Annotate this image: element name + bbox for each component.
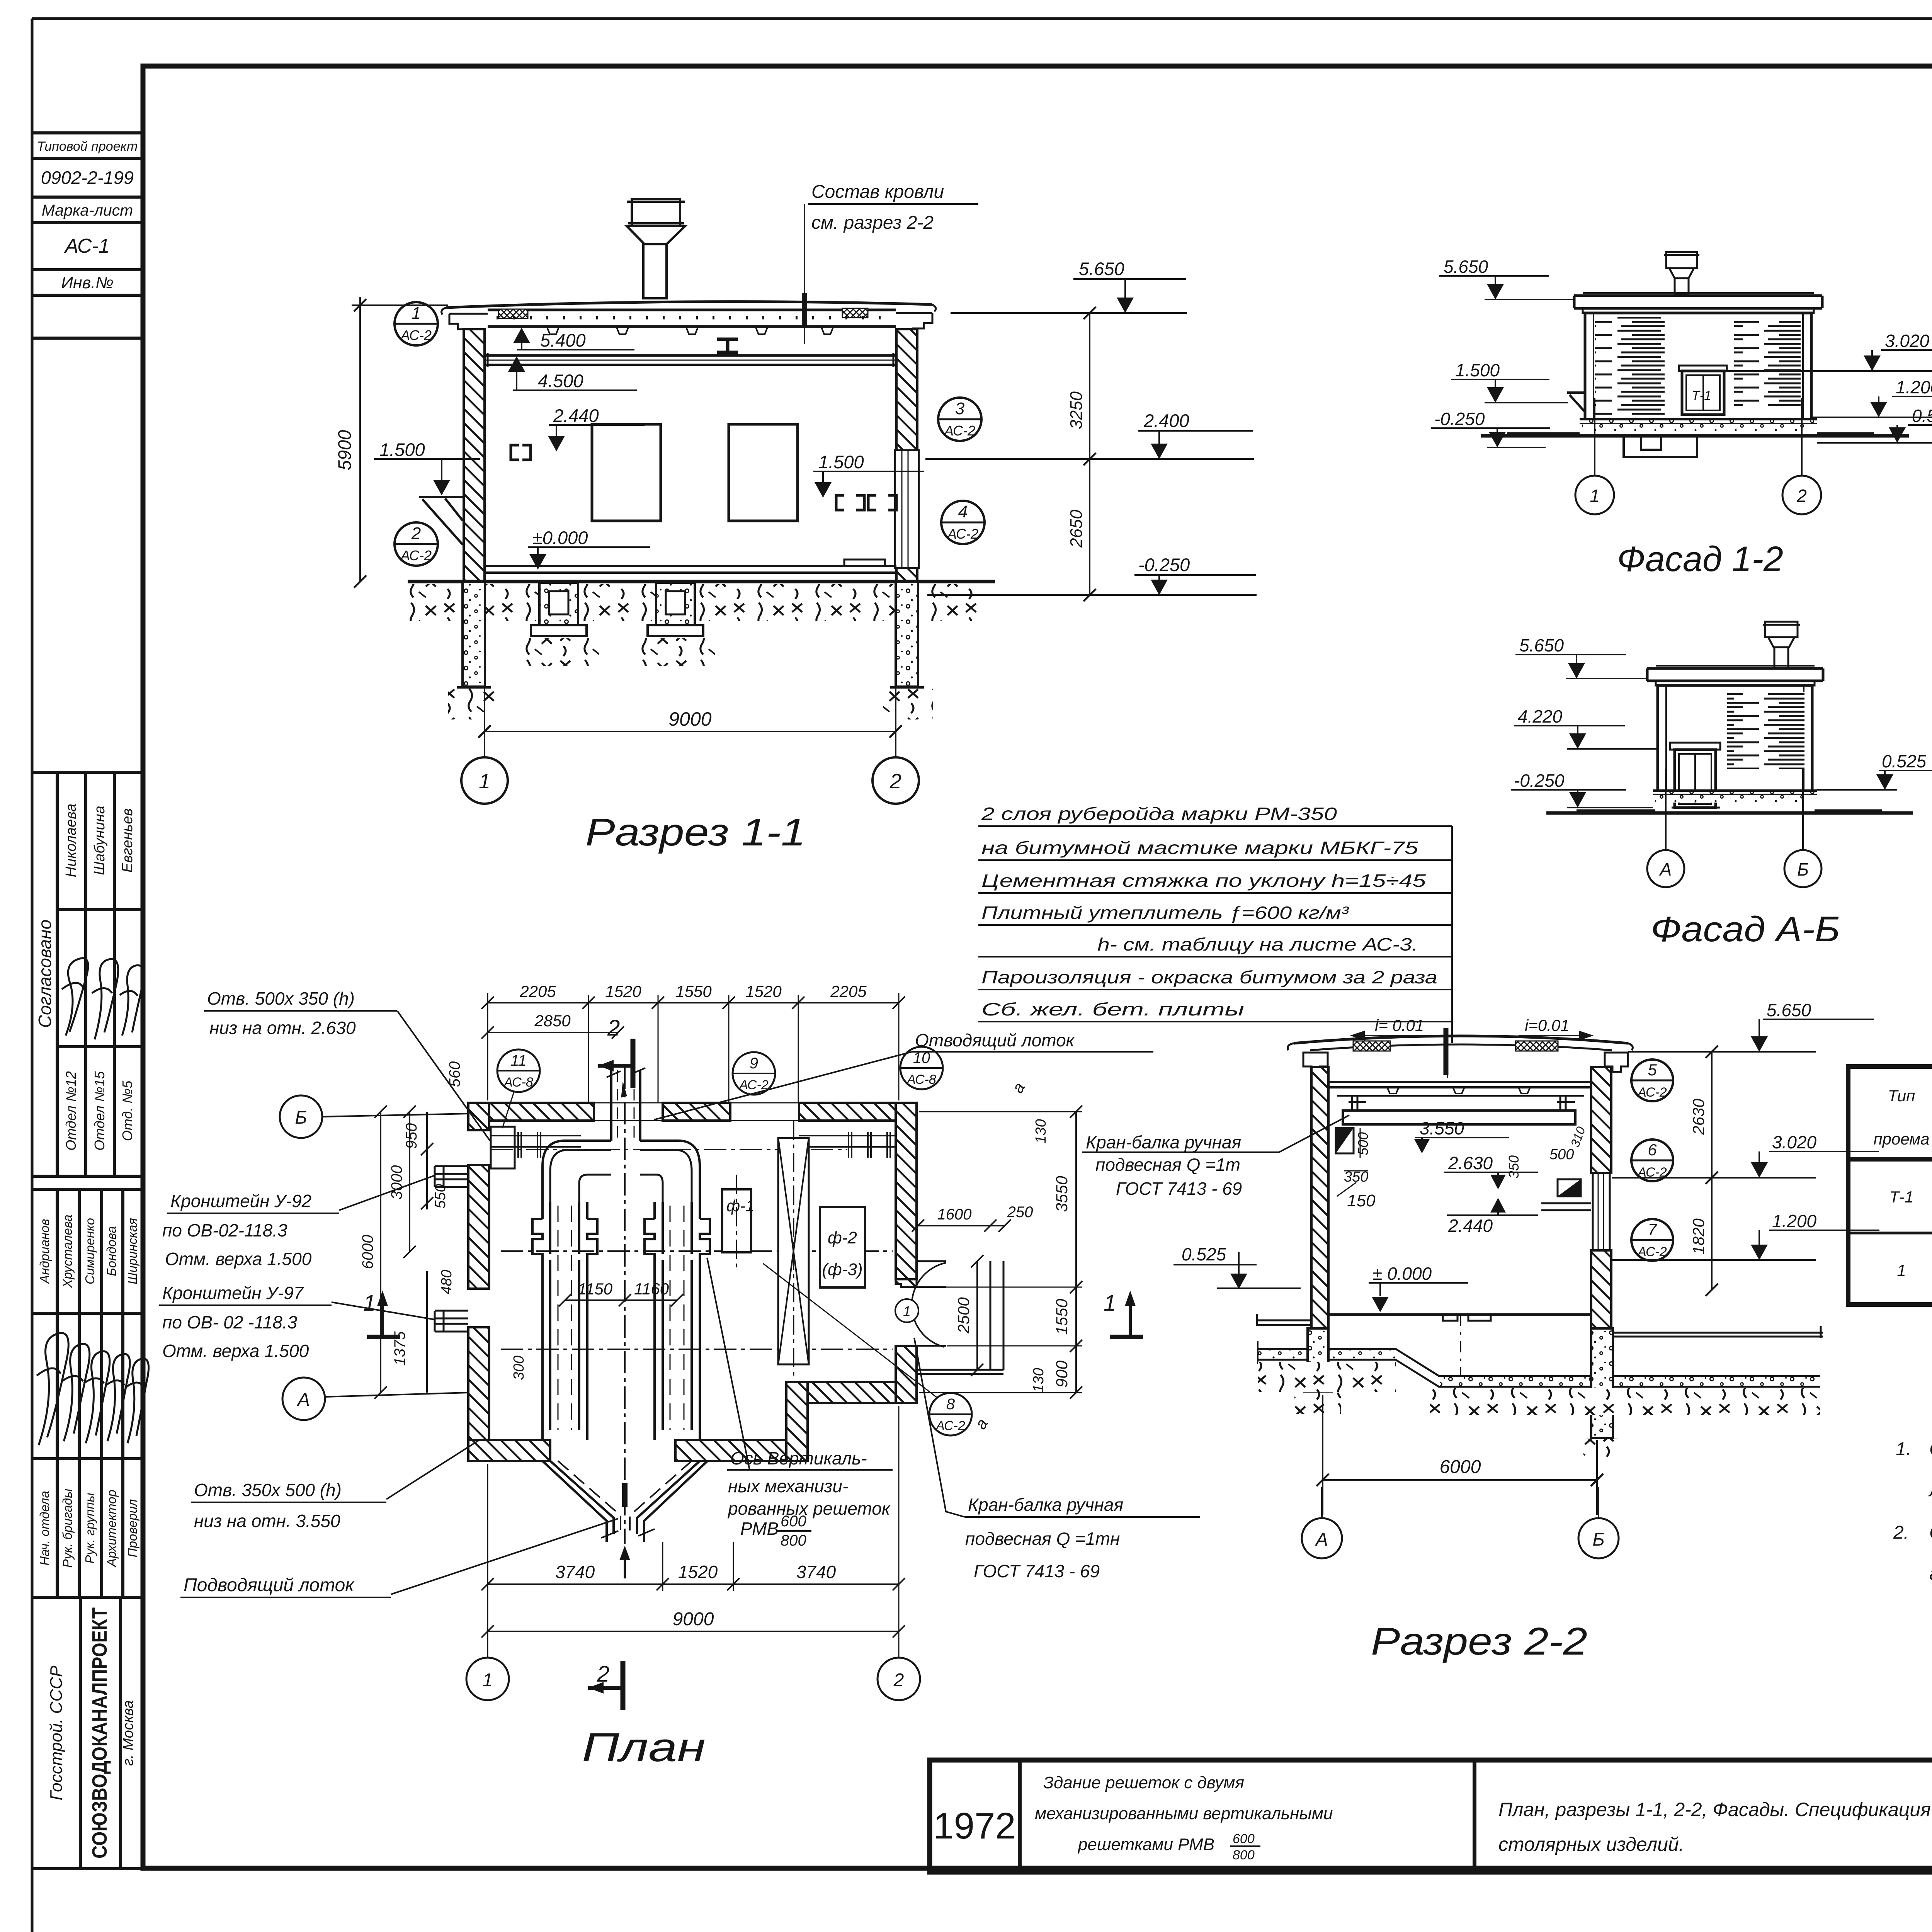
svg-text:Фасад А-Б: Фасад А-Б xyxy=(1651,910,1840,949)
svg-text:АС-2: АС-2 xyxy=(1637,1245,1667,1259)
spec table row 2 xyxy=(1897,1244,1932,1290)
section 1-1: right wall louver xyxy=(895,450,919,568)
svg-text:2 слоя руберойда марки РМ-3: 2 слоя руберойда марки РМ-350 xyxy=(981,804,1337,824)
svg-text:1.500: 1.500 xyxy=(1455,360,1500,380)
section 1-1: elevation mark 5.650 right xyxy=(951,259,1187,313)
plan: axis line lower xyxy=(501,1349,893,1350)
svg-text:Бондова: Бондова xyxy=(104,1226,119,1276)
svg-text:Симиренко: Симиренко xyxy=(83,1218,97,1284)
plan: axis circle 2 xyxy=(878,1658,920,1700)
svg-text:г. Москва: г. Москва xyxy=(120,1700,136,1766)
svg-text:2630: 2630 xyxy=(1689,1099,1708,1135)
svg-text:Разрез 2-2: Разрез 2-2 xyxy=(1371,1620,1587,1663)
svg-text:Относительной отметке ±0.00: Относительной отметке ±0.00 соответствуе… xyxy=(1929,1522,1932,1543)
plan: bottom wall right xyxy=(808,1382,896,1403)
section 2-2: detail circle 7/AC-2 xyxy=(1631,1219,1673,1261)
svg-text:низ на отн. 3.550: низ на отн. 3.550 xyxy=(194,1511,340,1531)
section 2-2: axis circle B xyxy=(1578,1487,1619,1558)
section 2-2: crane beam xyxy=(1337,1096,1584,1124)
plan: section mark 2 top xyxy=(598,1015,633,1088)
svg-text:Отм. верха 1.500: Отм. верха 1.500 xyxy=(165,1249,312,1269)
section 1-1: wall bracket shelf left xyxy=(419,497,464,545)
section 2-2: mark 5.650 xyxy=(1628,1000,1874,1052)
svg-text:механизированными вертикальны: механизированными вертикальными xyxy=(1035,1804,1333,1823)
svg-text:500: 500 xyxy=(1355,1132,1371,1155)
svg-text:1.500: 1.500 xyxy=(379,439,425,460)
top-left project info box xyxy=(32,133,143,338)
section 2-2: eaves cornices xyxy=(1303,1053,1328,1072)
spec table header xyxy=(1874,1082,1932,1152)
svg-text:1600: 1600 xyxy=(937,1206,972,1223)
plan: monorail axis xyxy=(491,1149,847,1150)
svg-text:6000: 6000 xyxy=(359,1235,376,1269)
plan: label kronshteyn U-97 xyxy=(159,1283,435,1361)
plan: porch xyxy=(918,1261,1003,1374)
plan: label os vertikalnyh xyxy=(707,1258,893,1549)
svg-text:5: 5 xyxy=(1648,1061,1657,1079)
svg-text:h- см. таблицу на листе АС-: h- см. таблицу на листе АС-3. xyxy=(1097,934,1418,954)
section 1-1: middle footing A xyxy=(531,583,587,636)
section 2-2: crane label xyxy=(1082,1115,1349,1199)
svg-text:1520: 1520 xyxy=(678,1562,718,1582)
svg-text:Тип: Тип xyxy=(1888,1087,1915,1105)
svg-text:300: 300 xyxy=(511,1355,527,1380)
plan: label otvodyashchiy xyxy=(654,1030,1153,1120)
svg-text:Состав кровли: Состав кровли xyxy=(811,182,944,202)
svg-text:-0.250: -0.250 xyxy=(1138,554,1190,575)
svg-text:6: 6 xyxy=(1648,1141,1657,1159)
section 1-1: right pier foundation xyxy=(890,582,924,687)
plan: inlet arrow xyxy=(619,1546,630,1578)
plan: label otv 500x350 xyxy=(204,988,490,1141)
svg-text:1160: 1160 xyxy=(634,1280,669,1298)
section 2-2: mark 3.550 xyxy=(1414,1118,1509,1153)
facade A-B: elevation 0.525 xyxy=(1817,751,1932,790)
facade A-B: elevation -0.250 xyxy=(1511,770,1653,808)
facade A-B: axis circle B xyxy=(1784,769,1821,887)
svg-text:3250: 3250 xyxy=(1067,391,1086,429)
svg-text:Отв. 500x 350 (h): Отв. 500x 350 (h) xyxy=(207,988,355,1009)
approvals block (Soglasovano) xyxy=(32,772,143,1176)
svg-text:5.650: 5.650 xyxy=(1767,1000,1811,1020)
section 2-2: floor line xyxy=(1328,1315,1591,1376)
svg-text:План: План xyxy=(582,1725,706,1770)
svg-text:ф-2: ф-2 xyxy=(828,1228,857,1247)
svg-text:7: 7 xyxy=(1648,1220,1657,1238)
facade 1-2: axis circle 2 xyxy=(1782,398,1821,514)
facade 1-2: window T-1 xyxy=(1679,366,1727,415)
svg-text:Сб. жел. бет. плиты: Сб. жел. бет. плиты xyxy=(981,999,1244,1019)
plan: label kronshteyn U-92 xyxy=(162,1175,435,1269)
plan: monorail rails top xyxy=(491,1127,896,1168)
section 1-1: left pier foundation xyxy=(457,582,491,687)
svg-text:2: 2 xyxy=(889,770,901,793)
svg-text:СОЮЗВОДОКАНАЛПРОЕКТ: СОЮЗВОДОКАНАЛПРОЕКТ xyxy=(88,1607,111,1859)
section 2-2: left pier xyxy=(1303,1328,1333,1393)
section 1-1: roof note xyxy=(804,182,978,344)
plan: top dims row xyxy=(481,982,905,1103)
section 2-2: mark 3.020 xyxy=(1612,1132,1879,1178)
svg-text:0.525: 0.525 xyxy=(1912,406,1932,426)
svg-text:3.020: 3.020 xyxy=(1885,331,1930,351)
svg-text:150: 150 xyxy=(1347,1191,1376,1210)
section 2-2: axis circle A xyxy=(1302,1487,1342,1558)
section 1-1: ground line xyxy=(408,580,995,583)
svg-text:Пароизоляция - окраска битумо: Пароизоляция - окраска битумом за 2 раза xyxy=(981,967,1437,987)
section 1-1: right wall xyxy=(896,329,917,582)
svg-text:ГОСТ 7413 - 69: ГОСТ 7413 - 69 xyxy=(1116,1179,1242,1199)
svg-text:Т-1: Т-1 xyxy=(1889,1188,1914,1206)
svg-text:ГОСТ 7413 - 69: ГОСТ 7413 - 69 xyxy=(974,1561,1100,1581)
plan: bracket U-92 stub xyxy=(435,1166,468,1187)
facade A-B: axis circle A xyxy=(1647,769,1684,887)
svg-text:5.650: 5.650 xyxy=(1444,257,1488,277)
svg-text:АС-2: АС-2 xyxy=(400,548,432,563)
section 2-2: right vertical dim xyxy=(1689,1046,1718,1296)
facade 1-2: elevation 1.200 xyxy=(1812,377,1932,417)
svg-text:130: 130 xyxy=(1031,1368,1047,1392)
plan: left dim column xyxy=(359,1105,527,1399)
plan: label podvodyashchiy xyxy=(180,1519,618,1597)
svg-text:Совместно с данным листо: Совместно с данным листом смотрите xyxy=(1929,1439,1932,1459)
svg-text:Цементная стяжка по укло: Цементная стяжка по уклону h=15÷45 xyxy=(981,871,1426,891)
svg-text:А: А xyxy=(296,1389,310,1410)
svg-text:3550: 3550 xyxy=(1053,1176,1071,1212)
svg-text:ф-1: ф-1 xyxy=(726,1197,754,1215)
section 2-2: right pier xyxy=(1587,1328,1617,1440)
svg-text:9000: 9000 xyxy=(673,1609,714,1629)
section 1-1: elevation mark 2.400 right xyxy=(925,410,1254,459)
svg-text:Кронштейн У-92: Кронштейн У-92 xyxy=(170,1191,311,1211)
section 2-2: detail circle 6/AC-2 xyxy=(1631,1139,1673,1181)
svg-text:Б: Б xyxy=(295,1107,307,1128)
svg-text:1520: 1520 xyxy=(745,982,782,1000)
svg-text:2: 2 xyxy=(607,1015,620,1041)
svg-text:Рук. бригады: Рук. бригады xyxy=(60,1489,75,1568)
svg-text:2650: 2650 xyxy=(1067,510,1086,548)
section 2-2: mark 2.440 xyxy=(1447,1198,1538,1236)
svg-text:см. разрез 2-2: см. разрез 2-2 xyxy=(811,213,934,233)
svg-text:по ОВ- 02 -118.3: по ОВ- 02 -118.3 xyxy=(162,1312,298,1332)
svg-text:1: 1 xyxy=(1590,486,1600,506)
section 1-1: chimney xyxy=(627,199,685,298)
plan: section mark 2 bottom xyxy=(588,1661,623,1710)
section 1-1: roof slab xyxy=(442,302,936,334)
svg-text:1375: 1375 xyxy=(391,1331,408,1366)
plan: label kran-balka bottom xyxy=(914,1338,1200,1581)
section 1-1: elevation mark 4.500 xyxy=(508,356,637,391)
svg-text:3.550: 3.550 xyxy=(1420,1118,1464,1138)
svg-text:250: 250 xyxy=(1007,1204,1033,1221)
svg-text:Кран-балка ручная: Кран-балка ручная xyxy=(1086,1132,1241,1152)
svg-text:± 0.000: ± 0.000 xyxy=(1372,1264,1432,1284)
section 1-1: elevation mark 0.000 xyxy=(528,527,650,570)
svg-text:4.500: 4.500 xyxy=(538,371,583,391)
plan: inlet channel stub xyxy=(607,1068,645,1141)
plan: detail circle 8/AC-2 xyxy=(763,1264,972,1435)
svg-text:Фасад 1-2: Фасад 1-2 xyxy=(1617,539,1783,579)
svg-text:Нач. отдела: Нач. отдела xyxy=(37,1491,52,1565)
facade A-B: ground line xyxy=(1546,811,1913,815)
svg-text:Ось Вертикаль-: Ось Вертикаль- xyxy=(730,1448,867,1468)
plan: detail circle 9/AC-2 xyxy=(733,1052,775,1095)
section 2-2: right wall window xyxy=(1593,1173,1610,1250)
svg-text:2.440: 2.440 xyxy=(553,405,599,426)
section 1-1: rail bracket marks left xyxy=(511,445,531,460)
svg-text:800: 800 xyxy=(1233,1848,1255,1862)
svg-text:4.220: 4.220 xyxy=(1518,706,1563,726)
facade 1-2: elevation 3.020 xyxy=(1724,331,1932,371)
svg-text:столярных изделий.: столярных изделий. xyxy=(1498,1833,1684,1855)
facade 1-2: elevation 0.525 xyxy=(1817,406,1932,443)
plan: funnel black bar xyxy=(622,1483,628,1507)
section 1-1: elevation mark -0.250 right xyxy=(927,554,1257,595)
svg-text:2.: 2. xyxy=(1893,1522,1909,1543)
plan: porch dims xyxy=(912,1204,1033,1376)
svg-text:решетками РМВ: решетками РМВ xyxy=(1077,1835,1214,1854)
plan: bracket U-97 stub xyxy=(435,1311,468,1332)
spec table row 1 xyxy=(1889,1168,1932,1234)
plan: axis line mid xyxy=(501,1250,893,1252)
svg-text:на битумной мастике марки: на битумной мастике марки МБКГ-75 xyxy=(981,838,1418,858)
svg-text:1: 1 xyxy=(363,1291,376,1316)
svg-text:5900: 5900 xyxy=(334,430,355,471)
section 1-1: axis circle 1 xyxy=(461,743,508,804)
section 2-2: mark 2.630 xyxy=(1444,1153,1538,1189)
plan: dim 9000 xyxy=(481,1609,905,1638)
plan: vertical screen frame xyxy=(778,1121,809,1376)
svg-text:Хрусталева: Хрусталева xyxy=(60,1214,75,1288)
svg-text:подвесная Q =1тн: подвесная Q =1тн xyxy=(965,1529,1120,1549)
section 2-2: corbel right xyxy=(1541,1179,1591,1210)
plan: section mark 1 right xyxy=(1104,1291,1143,1337)
svg-text:130: 130 xyxy=(1033,1119,1049,1143)
plan: axis circle 1 xyxy=(466,1658,509,1700)
section 1-1: elevation mark 1.500 right xyxy=(813,452,924,498)
svg-text:3: 3 xyxy=(955,399,965,418)
svg-text:2.630: 2.630 xyxy=(1448,1153,1493,1173)
svg-text:Кран-балка ручная: Кран-балка ручная xyxy=(968,1495,1123,1515)
section 2-2: mark 0.525 left xyxy=(1173,1244,1301,1289)
svg-text:0.525: 0.525 xyxy=(1182,1244,1226,1264)
section 2-2: outside grade slabs xyxy=(1256,1314,1823,1338)
svg-text:1520: 1520 xyxy=(605,982,641,1000)
svg-text:9000: 9000 xyxy=(668,708,711,730)
svg-text:Госстрой. СССР: Госстрой. СССР xyxy=(47,1665,66,1800)
facade 1-2: entrance pit xyxy=(1624,436,1697,457)
svg-text:Кронштейн У-97: Кронштейн У-97 xyxy=(162,1283,304,1303)
svg-text:5.650: 5.650 xyxy=(1079,259,1124,279)
svg-text:А: А xyxy=(1659,859,1672,879)
svg-text:0902-2-199: 0902-2-199 xyxy=(41,167,134,188)
plan: bottom dims row xyxy=(481,1406,905,1658)
facade 1-2: elevation 5.650 xyxy=(1439,257,1574,299)
svg-text:2: 2 xyxy=(893,1670,904,1690)
svg-text:5.650: 5.650 xyxy=(1519,635,1564,655)
plan: screens manifold header xyxy=(543,1141,700,1202)
section 2-2: mark 0.000 xyxy=(1369,1264,1468,1312)
facade A-B: base strip xyxy=(1653,791,1817,803)
svg-text:600: 600 xyxy=(1233,1832,1255,1846)
svg-text:1.: 1. xyxy=(1896,1439,1911,1459)
svg-text:2205: 2205 xyxy=(519,982,556,1000)
svg-text:5.400: 5.400 xyxy=(540,330,586,350)
facade A-B: chimney xyxy=(1763,622,1800,668)
svg-text:АС-2: АС-2 xyxy=(944,423,975,439)
section 2-2: left wall xyxy=(1311,1067,1328,1384)
plan: door mark circle 1 xyxy=(895,1299,918,1322)
section 1-1: left vertical dim 5900 xyxy=(334,297,448,588)
roofing note leader xyxy=(1447,826,1452,1078)
svg-text:Андрианов: Андрианов xyxy=(37,1219,52,1284)
svg-text:Здание решеток с двумя: Здание решеток с двумя xyxy=(1043,1773,1244,1792)
svg-text:Б: Б xyxy=(1592,1529,1604,1550)
svg-text:Евгеньев: Евгеньев xyxy=(119,808,136,873)
plan: center axis vertical xyxy=(624,1066,626,1544)
svg-text:1550: 1550 xyxy=(675,982,712,1000)
svg-text:3000: 3000 xyxy=(388,1165,405,1200)
svg-text:11: 11 xyxy=(510,1052,527,1069)
svg-text:Согласовано: Согласовано xyxy=(35,920,55,1028)
section 2-2: dim 6000 xyxy=(1316,1395,1603,1515)
svg-text:АС-2: АС-2 xyxy=(1637,1085,1667,1100)
plan: axis circle A left xyxy=(282,1378,468,1420)
svg-text:550: 550 xyxy=(432,1184,449,1208)
plan: F-2 unit xyxy=(820,1207,865,1287)
section 2-2: underground strip xyxy=(1258,1341,1820,1387)
svg-text:1: 1 xyxy=(479,770,490,793)
section 2-2: ceiling slab xyxy=(1328,1082,1591,1094)
svg-text:i=0.01: i=0.01 xyxy=(1525,1016,1570,1034)
facade A-B: roof slab xyxy=(1647,666,1823,685)
svg-text:1: 1 xyxy=(483,1670,493,1690)
svg-text:рованных решеток: рованных решеток xyxy=(727,1498,891,1519)
plan: step wall xyxy=(786,1382,808,1461)
svg-text:Шабунина: Шабунина xyxy=(92,806,108,875)
section 1-1: window opening right xyxy=(729,424,798,521)
plan: right wall xyxy=(896,1103,917,1403)
plan: F-1 unit xyxy=(722,1175,754,1271)
svg-text:Отд. №5: Отд. №5 xyxy=(119,1080,135,1141)
svg-text:900: 900 xyxy=(1053,1360,1071,1388)
section 2-2: corbel left xyxy=(1336,1128,1354,1153)
plan: dim 1150 1160 xyxy=(559,1280,683,1306)
plan: detail circle 10/AC-8 xyxy=(900,1047,943,1089)
plan: bottom wall left xyxy=(468,1440,786,1461)
svg-text:Архитектор: Архитектор xyxy=(104,1490,119,1568)
svg-text:подвесная Q =1т: подвесная Q =1т xyxy=(1095,1155,1240,1175)
svg-text:абсолютная отметка.: абсолютная отметка. xyxy=(1929,1563,1932,1584)
svg-text:Подводящий лоток: Подводящий лоток xyxy=(184,1575,355,1595)
facade 1-2: axis circle 1 xyxy=(1575,398,1614,514)
section 1-1: crane runway beam xyxy=(485,353,896,367)
section 1-1: detail circle 2/AC-2 xyxy=(395,522,438,566)
svg-text:1: 1 xyxy=(412,304,421,323)
svg-text:350: 350 xyxy=(1506,1155,1522,1179)
svg-text:480: 480 xyxy=(439,1270,455,1294)
svg-text:6000: 6000 xyxy=(1440,1457,1481,1477)
svg-text:1: 1 xyxy=(1104,1291,1116,1316)
plan: detail circle 11/AC-8 xyxy=(497,1049,540,1128)
plan: label otv 350x500 xyxy=(191,1440,479,1531)
svg-text:i= 0.01: i= 0.01 xyxy=(1375,1016,1424,1034)
svg-text:Отдел №15: Отдел №15 xyxy=(92,1071,107,1151)
svg-text:3.020: 3.020 xyxy=(1772,1132,1817,1152)
svg-text:800: 800 xyxy=(781,1532,806,1549)
section 1-1: middle footing B xyxy=(648,583,703,636)
svg-text:АС-2: АС-2 xyxy=(935,1418,965,1433)
svg-text:Проверил: Проверил xyxy=(125,1499,139,1558)
facade A-B: elevation 5.650 xyxy=(1515,635,1647,679)
svg-text:ных механизи-: ных механизи- xyxy=(728,1476,848,1496)
plan: screen channel 2 xyxy=(645,1202,710,1440)
svg-text:Отв. 350x 500 (h): Отв. 350x 500 (h) xyxy=(194,1480,342,1500)
plan: right dim column xyxy=(919,1079,1082,1432)
signatures scribbles approvals xyxy=(37,958,149,1445)
svg-text:АС-1: АС-1 xyxy=(64,235,110,257)
svg-text:Разрез 1-1: Разрез 1-1 xyxy=(585,811,806,854)
plan: dim 2850 xyxy=(481,1012,624,1039)
plan: section mark 1 left xyxy=(363,1291,400,1337)
svg-text:4: 4 xyxy=(958,502,968,521)
svg-text:8: 8 xyxy=(946,1396,955,1413)
svg-text:-0.250: -0.250 xyxy=(1514,770,1565,791)
svg-text:Инв.№: Инв.№ xyxy=(61,274,113,292)
svg-text:1: 1 xyxy=(903,1303,911,1319)
svg-text:проема: проема xyxy=(1874,1130,1930,1148)
section 1-1: detail circle 4/AC-2 xyxy=(941,501,985,544)
plan: top wall xyxy=(468,1103,917,1121)
svg-text:600: 600 xyxy=(781,1513,806,1530)
section 1-1: floor slab xyxy=(485,560,896,573)
section 1-1: elevation mark 5.400 xyxy=(513,328,634,350)
svg-text:Плитный утеплитель ƒ=600 кг/: Плитный утеплитель ƒ=600 кг/м³ xyxy=(981,903,1349,923)
svg-text:950: 950 xyxy=(403,1123,420,1149)
svg-text:2.400: 2.400 xyxy=(1143,410,1189,431)
org block xyxy=(32,1597,143,1869)
section 1-1: right vertical dim 3250 2650 xyxy=(1067,307,1096,601)
section 2-2: slope labels xyxy=(1352,1016,1591,1039)
names block xyxy=(32,1189,143,1597)
svg-text:РМВ: РМВ xyxy=(740,1519,779,1539)
svg-text:1150: 1150 xyxy=(578,1280,613,1298)
svg-text:2: 2 xyxy=(411,524,421,543)
section 1-1: elevation mark 1.500 left xyxy=(374,439,480,495)
plan: axis circle B left xyxy=(280,1095,468,1138)
section 1-1: left wall xyxy=(464,329,485,582)
facade A-B: door xyxy=(1670,743,1720,808)
section 1-1: rail bracket marks right xyxy=(836,495,896,510)
section 1-1: ground hatch xyxy=(409,584,988,719)
svg-text:9: 9 xyxy=(750,1055,758,1072)
section 2-2: right wall lower xyxy=(1591,1250,1611,1384)
svg-text:3740: 3740 xyxy=(555,1562,595,1582)
bottom title block xyxy=(930,1760,1932,1872)
section 1-1: axis circle 2 xyxy=(872,743,919,804)
svg-text:Отм. верха 1.500: Отм. верха 1.500 xyxy=(162,1341,309,1361)
facade 1-2: chimney xyxy=(1664,252,1699,294)
svg-text:1.200: 1.200 xyxy=(1896,377,1932,397)
svg-text:3740: 3740 xyxy=(796,1562,836,1582)
section 2-2: roof arch xyxy=(1288,1036,1633,1050)
svg-text:2205: 2205 xyxy=(830,982,867,1000)
svg-text:Типовой проект: Типовой проект xyxy=(37,139,138,154)
plan: door swing xyxy=(912,1263,946,1347)
svg-text:Рук. группы: Рук. группы xyxy=(83,1493,97,1563)
spec table grid xyxy=(1848,1066,1932,1304)
svg-text:-0.250: -0.250 xyxy=(1434,409,1485,429)
svg-text:Николаева: Николаева xyxy=(63,804,79,878)
